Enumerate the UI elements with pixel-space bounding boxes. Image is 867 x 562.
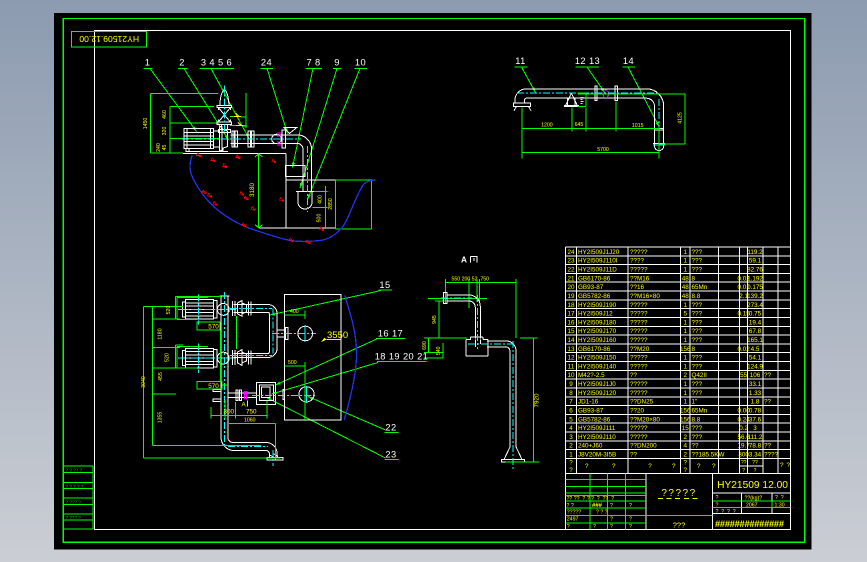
svg-text:550 200 52 750: 550 200 52 750 (452, 277, 490, 283)
butterfly valve actuator triangle (284, 127, 297, 133)
svg-text:?????: ????? (630, 249, 648, 256)
svg-text:??: ?? (630, 452, 638, 459)
3550 callout (321, 330, 348, 342)
svg-text:GB5782-86: GB5782-86 (578, 293, 611, 300)
motor M1 (184, 129, 228, 152)
dim 945 (432, 301, 446, 338)
svg-text:?????: ????? (567, 509, 582, 515)
svg-text:0.175: 0.175 (747, 284, 763, 291)
revision grid green (566, 473, 646, 529)
svg-text:124.9: 124.9 (747, 363, 763, 370)
svg-text:?????: ????? (630, 267, 648, 274)
svg-text:?: ? (569, 460, 573, 467)
svg-text:5: 5 (569, 416, 573, 423)
svg-text:570: 570 (208, 383, 219, 390)
vertical pipe centerline (223, 86, 225, 134)
svg-text:520: 520 (166, 306, 172, 315)
svg-text:78.8: 78.8 (749, 443, 762, 450)
support bracket box (285, 166, 305, 177)
svg-text:?????: ????? (630, 381, 648, 388)
centerline (517, 93, 660, 141)
svg-text:???: ??? (692, 425, 703, 432)
drawing number tag (rotated 180) (72, 32, 147, 47)
svg-text:65Mn: 65Mn (692, 408, 708, 415)
view3 A-view riser group (422, 256, 541, 470)
svg-text:???: ??? (692, 249, 703, 256)
green outer border frame (63, 19, 805, 543)
right elbow and drop pipe (646, 89, 665, 151)
balloon 14 (623, 56, 660, 127)
svg-text:1: 1 (683, 328, 687, 335)
svg-text:?: ? (697, 463, 701, 470)
svg-text:A: A (461, 256, 467, 265)
svg-text:23: 23 (567, 258, 575, 265)
dim labels (rotated) (143, 110, 168, 152)
dim 3180 vertical (249, 154, 262, 228)
tank water blue spline (344, 296, 356, 420)
lower flanged pipe to small pump (213, 389, 257, 401)
balloon 11 (515, 56, 536, 93)
svg-text:HY2I509J110: HY2I509J110 (578, 434, 616, 441)
svg-text:1: 1 (683, 319, 687, 326)
svg-text:?????: ????? (630, 337, 648, 344)
svg-text:??: ?? (692, 443, 700, 450)
svg-text:HY21509.12.00: HY21509.12.00 (79, 34, 139, 44)
svg-text:1: 1 (683, 249, 687, 256)
table grid (566, 247, 791, 473)
svg-text:?: ? (610, 503, 613, 509)
table row texts (567, 249, 763, 256)
svg-text:460: 460 (162, 110, 168, 119)
dim 7920 (506, 338, 541, 462)
svg-text:?: ? (585, 463, 589, 470)
dim 4125 (578, 94, 685, 144)
dims 690 540 (422, 338, 467, 358)
svg-text:?????: ????? (630, 425, 648, 432)
svg-text:15: 15 (567, 328, 575, 335)
svg-text:GB93-87: GB93-87 (578, 284, 604, 291)
svg-text:15: 15 (379, 280, 390, 290)
svg-text:1: 1 (569, 452, 573, 459)
svg-text:??DN25: ??DN25 (630, 399, 654, 406)
svg-text:?: ? (712, 463, 716, 470)
svg-text:10: 10 (355, 58, 366, 68)
balloon 12 13 (575, 56, 605, 93)
svg-text:?????: ????? (630, 434, 648, 441)
svg-text:1: 1 (683, 363, 687, 370)
svg-text:???: ??? (673, 521, 686, 530)
svg-text:15: 15 (682, 425, 690, 432)
svg-text:?: ? (787, 462, 791, 469)
svg-text:8: 8 (692, 275, 696, 282)
svg-text:J8V20M-3I5B: J8V20M-3I5B (578, 452, 616, 459)
svg-text:13: 13 (567, 346, 575, 353)
small pump block (257, 383, 285, 405)
pit ground line (183, 152, 286, 154)
svg-text:HY2I509J120: HY2I509J120 (578, 390, 617, 397)
balloon 2 (178, 58, 229, 141)
svg-text:4: 4 (569, 425, 573, 432)
svg-text:45: 45 (162, 145, 168, 151)
svg-text:???: ??? (692, 434, 703, 441)
red earth marks (197, 153, 324, 244)
svg-text:HY2I509J111: HY2I509J111 (578, 425, 616, 432)
svg-text:?: ? (672, 463, 676, 470)
svg-text:??(kg)?: ??(kg)? (745, 495, 763, 501)
bottom elbow and pipe (221, 438, 283, 460)
svg-text:???: ??? (692, 319, 703, 326)
discharge pipe horizontal (231, 130, 298, 148)
svg-text:##############: ############## (715, 519, 784, 529)
svg-text:48: 48 (682, 275, 690, 282)
svg-text:7: 7 (569, 399, 573, 406)
balloon 16 17 (276, 329, 406, 386)
svg-text:??185.5KW: ??185.5KW (692, 452, 725, 459)
570 dim boxes (197, 322, 220, 331)
green vertical along header between 570 boxes (219, 330, 221, 382)
svg-text:1: 1 (683, 381, 687, 388)
svg-text:690: 690 (422, 341, 428, 350)
svg-text:156: 156 (680, 416, 691, 423)
BOM parts table (566, 247, 791, 474)
svg-text:???: ??? (692, 355, 703, 362)
view4 twin pump assembly group (141, 280, 428, 466)
svg-text:1: 1 (683, 258, 687, 265)
balloon 18 19 20 21 (272, 352, 429, 395)
svg-text:5700: 5700 (597, 147, 609, 153)
svg-text:59.1: 59.1 (749, 258, 762, 265)
table header texts (569, 460, 790, 475)
riser piping (444, 293, 525, 463)
svg-text:24: 24 (567, 249, 575, 256)
svg-text:139.2: 139.2 (747, 293, 763, 300)
svg-text:? ? ? ?: ? ? ? ? (716, 509, 736, 515)
svg-text:8.8: 8.8 (692, 293, 701, 300)
svg-text:16 17: 16 17 (378, 329, 403, 339)
revision tiny texts (567, 496, 633, 530)
svg-text:300: 300 (224, 409, 235, 416)
view2 overhead piping group (514, 56, 685, 159)
svg-text:10: 10 (567, 372, 575, 379)
svg-text:1180: 1180 (158, 328, 164, 339)
svg-text:1200: 1200 (541, 123, 553, 129)
svg-text:1015: 1015 (632, 123, 644, 129)
svg-text:320: 320 (162, 127, 168, 136)
svg-text:750: 750 (246, 409, 257, 416)
U pipe centerlines (230, 308, 273, 355)
balloon 3 4 5 6 (200, 58, 250, 139)
left margin mini table (63, 466, 93, 529)
reducers pump1 (232, 301, 251, 366)
svg-text:HY2I509J160: HY2I509J160 (578, 337, 617, 344)
down pipe centerline (306, 146, 308, 212)
svg-text:9: 9 (334, 58, 340, 68)
svg-text:??: ?? (764, 372, 772, 379)
svg-text:??M20: ??M20 (630, 346, 650, 353)
pit wall and bottom (259, 153, 336, 228)
svg-text:12: 12 (567, 355, 575, 362)
svg-text:1: 1 (683, 355, 687, 362)
svg-text:Q42II: Q42II (692, 372, 708, 379)
svg-text:119.2: 119.2 (747, 249, 763, 256)
svg-text:2067: 2067 (746, 503, 758, 509)
svg-text:??DN200: ??DN200 (630, 443, 657, 450)
svg-text:1": 1" (692, 399, 698, 406)
svg-text:273.4: 273.4 (747, 302, 763, 309)
vertical header pipe (220, 296, 230, 437)
svg-text:12 13: 12 13 (575, 56, 600, 66)
svg-text:22: 22 (385, 423, 396, 433)
svg-text:11: 11 (515, 56, 525, 66)
centerlines (441, 295, 515, 469)
tank outline (285, 295, 342, 421)
svg-text:?: ? (610, 524, 613, 530)
svg-text:???: ??? (692, 267, 703, 274)
svg-text:? ? ? ! ?: ? ? ? ! ? (66, 467, 83, 472)
pump motor P2 (183, 348, 230, 368)
svg-text:19: 19 (567, 293, 575, 300)
svg-text:2: 2 (683, 434, 687, 441)
svg-text:?: ? (629, 517, 632, 523)
dims 1200 645 1015 (522, 102, 659, 159)
svg-text:? ??? ?: ? ??? ? (66, 515, 82, 520)
white inner border frame (95, 31, 791, 530)
svg-text:JD1-16: JD1-16 (578, 399, 599, 406)
svg-text:1: 1 (683, 337, 687, 344)
svg-text:???: ??? (692, 258, 703, 265)
svg-text:0.02: 0.02 (737, 346, 750, 353)
view1 pump assembly group (143, 58, 375, 244)
svg-text:19.4: 19.4 (749, 319, 762, 326)
svg-text:??: ?? (764, 399, 772, 406)
svg-text:11: 11 (568, 363, 575, 370)
svg-text:1: 1 (683, 399, 687, 406)
svg-text:500: 500 (316, 214, 322, 223)
svg-text:48: 48 (682, 293, 690, 300)
svg-text:??: ?? (630, 372, 638, 379)
svg-text:??M16×80: ??M16×80 (630, 293, 660, 300)
svg-text:24: 24 (261, 58, 272, 68)
balloon 15 (270, 280, 392, 315)
green pit-right rectangle (335, 180, 375, 229)
balloon 22 (308, 397, 399, 433)
balloon 9 (300, 58, 342, 189)
svg-text:?????: ????? (630, 363, 648, 370)
svg-text:14: 14 (623, 56, 634, 66)
svg-text:?: ? (569, 467, 573, 474)
svg-text:?????: ????? (630, 390, 648, 397)
svg-text:1355: 1355 (158, 412, 164, 424)
suction valve on vertical pipe (217, 89, 232, 133)
svg-text:7920: 7920 (533, 393, 540, 408)
svg-text:14: 14 (567, 337, 575, 344)
svg-text:?????: ????? (661, 488, 696, 499)
svg-text:1: 1 (683, 390, 687, 397)
svg-text:23: 23 (385, 450, 396, 460)
svg-text:???: ??? (692, 337, 703, 344)
svg-text:3: 3 (753, 425, 757, 432)
svg-text:????: ???? (630, 258, 645, 265)
motor centerlines (178, 295, 236, 374)
dimension chain left of pump (150, 93, 245, 153)
svg-text:8.8: 8.8 (692, 416, 701, 423)
svg-text:HY2I509J11D: HY2I509J11D (578, 267, 617, 274)
svg-text:???: ??? (692, 390, 703, 397)
svg-text:?: ? (629, 524, 632, 530)
svg-text:?: ? (648, 463, 652, 470)
green bracket around motor2 left (177, 346, 208, 368)
svg-text:55: 55 (740, 372, 748, 379)
svg-text:9: 9 (569, 381, 573, 388)
svg-text:?: ? (683, 467, 687, 474)
svg-text:? ? ? ? ?: ? ? ? ? ? (66, 484, 84, 489)
green bracket around motor1 left (177, 298, 208, 320)
svg-text:?: ? (612, 463, 616, 470)
svg-text:540: 540 (436, 346, 442, 355)
svg-text:3 4 5 6: 3 4 5 6 (201, 58, 232, 68)
svg-text:?: ? (683, 460, 687, 467)
magenta gasket ring (603, 90, 609, 98)
svg-text:7 8: 7 8 (306, 58, 320, 68)
svg-text:? ?: ? ? (775, 495, 784, 501)
balloon 7 8 (292, 58, 322, 168)
svg-text:2: 2 (569, 443, 573, 450)
svg-text:1.192: 1.192 (747, 275, 763, 282)
svg-text:156: 156 (680, 408, 691, 415)
svg-text:21: 21 (567, 275, 575, 282)
svg-text:HY2I509J12: HY2I509J12 (578, 311, 613, 318)
svg-text:HY2I509J110I: HY2I509J110I (578, 258, 618, 265)
svg-text:16: 16 (567, 319, 575, 326)
svg-text:4.5: 4.5 (751, 346, 760, 353)
svg-text:?: ? (629, 503, 632, 509)
svg-text:400: 400 (317, 195, 323, 204)
svg-text:?????: ????? (630, 302, 648, 309)
weld symbols near valve (234, 114, 247, 127)
svg-text:67.8: 67.8 (749, 328, 762, 335)
suction stub to pump circle (277, 328, 288, 340)
svg-text:???: ??? (692, 363, 703, 370)
svg-text:1:30: 1:30 (775, 503, 785, 509)
pump coupling and casing (214, 127, 228, 151)
green weld dim box (578, 93, 586, 106)
svg-text:? ?: ? ? (567, 503, 574, 509)
svg-text:?????: ????? (630, 328, 648, 335)
svg-text:???: ??? (692, 381, 703, 388)
balloon 23 (267, 398, 399, 460)
svg-text:106: 106 (750, 372, 761, 379)
svg-text:6: 6 (569, 408, 573, 415)
svg-text:???: ??? (692, 311, 703, 318)
svg-text:1: 1 (683, 267, 687, 274)
svg-text:1.33: 1.33 (749, 390, 762, 397)
svg-text:? ??? ?: ? ??? ? (66, 500, 82, 505)
green centerline extension (428, 297, 487, 299)
svg-text:??20: ??20 (630, 408, 645, 415)
svg-text:???: ??? (692, 302, 703, 309)
balloon 1 (144, 58, 197, 132)
svg-text:??: ?? (764, 443, 772, 450)
horizontal pipe (514, 89, 647, 111)
svg-text:0.75: 0.75 (749, 311, 762, 318)
svg-text:?: ? (716, 502, 719, 508)
elbow down (297, 135, 312, 192)
flange pair 12 13 (595, 86, 617, 101)
pump suction circle C1 (298, 326, 313, 341)
svg-text:HY2I509J140: HY2I509J140 (578, 363, 617, 370)
svg-text:HY2I509J150: HY2I509J150 (578, 355, 617, 362)
svg-text:0.78: 0.78 (749, 408, 762, 415)
outlet bell reducer (296, 191, 314, 209)
svg-text:18: 18 (567, 302, 575, 309)
svg-text:HY2I509J170: HY2I509J170 (578, 328, 617, 335)
svg-text:3180: 3180 (249, 183, 256, 198)
svg-text:33.1: 33.1 (749, 381, 762, 388)
svg-text:48: 48 (682, 284, 690, 291)
svg-text:1: 1 (683, 302, 687, 309)
svg-text:17: 17 (567, 311, 575, 318)
svg-text:455: 455 (158, 372, 164, 381)
svg-text:?: ? (593, 524, 596, 530)
svg-text:???: ??? (692, 328, 703, 335)
svg-text:3.34: 3.34 (749, 452, 762, 459)
svg-text:520: 520 (165, 353, 171, 362)
svg-text:3040: 3040 (141, 376, 147, 388)
svg-text:?: ? (754, 468, 757, 474)
svg-text:4125: 4125 (678, 112, 684, 124)
svg-text:645: 645 (575, 122, 584, 128)
svg-text:?: ? (742, 468, 745, 474)
svg-text:HY2I509J180: HY2I509J180 (578, 319, 617, 326)
pipe support trestle (564, 93, 578, 106)
svg-text:300: 300 (738, 452, 749, 459)
svg-text:1.8: 1.8 (751, 399, 760, 406)
label A-view (461, 256, 477, 265)
title block (566, 473, 791, 530)
svg-text:54.1: 54.1 (749, 355, 762, 362)
svg-text:165.1: 165.1 (747, 337, 763, 344)
green tick between pumps (236, 316, 238, 349)
svg-text:65Mn: 65Mn (692, 284, 708, 291)
svg-text:82.76: 82.76 (747, 267, 763, 274)
svg-text:240+J60: 240+J60 (578, 443, 603, 450)
svg-text:2: 2 (683, 452, 687, 459)
svg-text:?????: ????? (630, 355, 648, 362)
svg-text:? ? ?: ? ? ? (596, 509, 608, 515)
svg-text:570: 570 (208, 324, 219, 331)
excavation blue spline (190, 155, 375, 241)
dims 300 750 1060 (211, 400, 275, 460)
pipe centerline horizontal (182, 138, 301, 140)
svg-text:GB6170-86: GB6170-86 (578, 346, 611, 353)
svg-text:1450: 1450 (143, 118, 149, 130)
svg-text:156: 156 (680, 346, 691, 353)
svg-text:500: 500 (288, 360, 297, 366)
gasket magenta (278, 132, 280, 146)
svg-text:2850: 2850 (328, 198, 334, 210)
svg-text:?: ? (716, 495, 719, 501)
svg-text:M42?-2.5: M42?-2.5 (578, 372, 605, 379)
svg-text:??: ?? (752, 460, 758, 466)
svg-text:4: 4 (683, 443, 687, 450)
left green dimension chain (144, 296, 281, 458)
pump motor P1 (183, 300, 230, 320)
svg-text:###: ### (592, 503, 603, 509)
svg-text:HY2I509J1J0: HY2I509J1J0 (578, 381, 616, 388)
svg-text:37.6: 37.6 (749, 416, 762, 423)
svg-text:1060: 1060 (244, 417, 256, 423)
svg-text:GB93-87: GB93-87 (578, 408, 604, 415)
